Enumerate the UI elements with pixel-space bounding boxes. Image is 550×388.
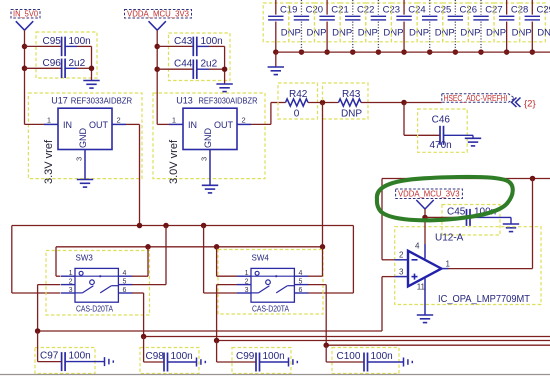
svg-text:3: 3: [245, 287, 249, 294]
capacitor C22 (DNP): [340, 0, 378, 55]
svg-text:100n: 100n: [69, 351, 91, 362]
svg-text:DNP: DNP: [486, 28, 506, 39]
svg-text:3: 3: [399, 268, 404, 277]
wire: [89, 46, 95, 80]
svg-text:DNP: DNP: [460, 28, 480, 39]
ground: [289, 358, 298, 367]
svg-text:U13: U13: [176, 95, 193, 105]
svg-text:DNP: DNP: [512, 28, 532, 39]
capacitor C46: [418, 109, 473, 152]
svg-text:470n: 470n: [430, 140, 452, 151]
node junction: [214, 244, 220, 250]
wire: [361, 102, 404, 104]
svg-text:1: 1: [446, 259, 451, 268]
resistor R43: [323, 83, 369, 120]
svg-text:1: 1: [245, 270, 249, 277]
svg-text:U17: U17: [51, 95, 68, 105]
wire: [204, 226, 237, 294]
svg-text:C100: C100: [337, 351, 361, 362]
wire: [12, 226, 61, 294]
wire: [424, 295, 426, 315]
wire: [322, 103, 324, 247]
op-amp U12-A: [395, 227, 542, 305]
wire: [326, 344, 550, 346]
node junction: [154, 66, 160, 72]
svg-text:6: 6: [123, 287, 127, 294]
capacitor C28 (DNP): [494, 0, 532, 55]
node junction: [422, 215, 428, 221]
ground: [465, 135, 481, 146]
svg-text:100n: 100n: [371, 351, 393, 362]
svg-text:DNP: DNP: [383, 28, 403, 39]
node junction: [320, 100, 326, 106]
wire: [404, 102, 442, 104]
svg-text:GND: GND: [203, 128, 213, 149]
resistor R42: [278, 83, 318, 120]
ground: [77, 180, 93, 188]
capacitor C99: [217, 341, 291, 374]
ground: [216, 84, 232, 92]
wire: [308, 102, 339, 104]
capacitor C26 (DNP): [443, 0, 481, 55]
svg-text:DNP: DNP: [341, 109, 362, 120]
wire: [404, 103, 440, 136]
svg-text:DNP: DNP: [332, 28, 352, 39]
wire: [144, 336, 550, 338]
wire: [126, 124, 140, 225]
svg-text:3: 3: [200, 157, 209, 161]
svg-text:{2}: {2}: [524, 99, 536, 110]
svg-text:4: 4: [123, 270, 127, 277]
svg-text:GND: GND: [78, 128, 88, 149]
annotation green ellipse: [377, 177, 513, 220]
wire: [56, 247, 61, 276]
wire: [251, 103, 286, 125]
svg-text:100n: 100n: [69, 36, 91, 47]
svg-text:C98: C98: [146, 351, 165, 362]
node junction: [530, 176, 536, 182]
svg-text:IN_5V0: IN_5V0: [13, 8, 38, 18]
node junction: [137, 223, 143, 229]
wire: [132, 293, 144, 337]
svg-text:6: 6: [299, 287, 303, 294]
ground: [404, 358, 413, 367]
switch SW3: [46, 251, 150, 316]
wire: [84, 164, 86, 180]
svg-text:100n: 100n: [263, 351, 285, 362]
capacitor C96: [25, 58, 92, 78]
ground: [503, 217, 519, 231]
capacitor C27 (DNP): [468, 0, 506, 55]
capacitor C45: [425, 205, 511, 236]
node junction: [22, 44, 28, 50]
wire: [209, 164, 211, 186]
svg-text:U12-A: U12-A: [435, 233, 464, 244]
wire: [382, 276, 395, 278]
voltage reference U13: [153, 93, 265, 184]
svg-text:C44: C44: [174, 59, 193, 70]
ground: [268, 52, 284, 75]
svg-text:2: 2: [242, 115, 246, 124]
svg-text:1: 1: [69, 270, 73, 277]
svg-text:2: 2: [399, 251, 404, 260]
ground: [417, 315, 433, 323]
capacitor C44: [157, 59, 224, 79]
svg-text:5: 5: [299, 278, 303, 285]
svg-text:DNP: DNP: [281, 28, 301, 39]
svg-text:IN: IN: [63, 120, 72, 130]
svg-text:100n: 100n: [171, 351, 193, 362]
wire: [38, 330, 382, 332]
wire: [0, 374, 550, 376]
svg-text:CAS-D20TA: CAS-D20TA: [252, 304, 290, 313]
node junction: [35, 328, 41, 334]
svg-text:DNP: DNP: [435, 28, 455, 39]
wire: [217, 247, 237, 276]
wire: [24, 30, 26, 124]
svg-text:CAS-D20TA: CAS-D20TA: [76, 304, 114, 313]
wire: [308, 285, 326, 346]
capacitor C25 (DNP): [417, 0, 455, 55]
svg-text:3.3V vref: 3.3V vref: [43, 139, 55, 184]
svg-text:C97: C97: [40, 351, 59, 362]
switch SW4: [218, 250, 323, 315]
svg-text:DNP: DNP: [358, 28, 378, 39]
svg-text:1: 1: [172, 115, 176, 124]
node junction: [145, 244, 151, 250]
chevron: [512, 98, 521, 108]
wire: [56, 246, 323, 248]
wire: [308, 226, 353, 294]
svg-text:5: 5: [123, 278, 127, 285]
svg-text:C95: C95: [43, 36, 62, 47]
wire: [156, 30, 158, 124]
svg-text:IN: IN: [188, 120, 197, 130]
svg-text:2: 2: [117, 115, 121, 124]
power port VDDA_MCU_3V3: [125, 8, 192, 30]
wire: [12, 225, 354, 227]
svg-text:R43: R43: [342, 89, 361, 100]
svg-text:C99: C99: [236, 351, 255, 362]
capacitor C95: [25, 32, 98, 78]
svg-text:DNP: DNP: [306, 28, 326, 39]
svg-text:R42: R42: [289, 89, 308, 100]
svg-text:SW4: SW4: [252, 254, 270, 263]
label sheet ref {2}: [524, 99, 536, 110]
capacitor C20 (DNP): [289, 0, 327, 55]
wire: [132, 247, 148, 276]
svg-text:2: 2: [245, 278, 249, 285]
svg-text:11: 11: [417, 283, 426, 292]
wire: [157, 123, 169, 125]
svg-text:2: 2: [69, 278, 73, 285]
voltage reference U17: [28, 93, 142, 184]
node junction: [141, 334, 147, 340]
capacitor C23 (DNP): [366, 0, 404, 55]
svg-text:C46: C46: [432, 115, 451, 126]
node junction: [320, 244, 326, 250]
ground: [197, 358, 206, 367]
wire: [217, 285, 237, 341]
wire: [424, 218, 426, 245]
ground: [202, 185, 218, 193]
capacitor C43: [157, 33, 230, 81]
wire: [217, 340, 550, 342]
wire: [25, 123, 45, 125]
wire: [222, 46, 228, 84]
capacitor C98: [140, 337, 199, 374]
svg-text:100n: 100n: [201, 36, 223, 47]
node junction: [214, 338, 220, 344]
svg-text:OUT: OUT: [214, 120, 234, 130]
node junction: [22, 66, 28, 72]
wire: [381, 277, 383, 331]
wire: [382, 178, 550, 180]
capacitor C19 (DNP): [263, 0, 301, 55]
node junction: [163, 223, 169, 229]
wire: [308, 247, 323, 276]
svg-text:REF3030AIDBZR: REF3030AIDBZR: [199, 95, 258, 105]
svg-text:DNP: DNP: [537, 28, 550, 39]
svg-text:SW3: SW3: [76, 254, 94, 263]
svg-text:3.0V vref: 3.0V vref: [168, 139, 180, 184]
svg-text:C43: C43: [174, 36, 193, 47]
svg-text:HSEC_ADC-VREFHI: HSEC_ADC-VREFHI: [444, 94, 508, 103]
node junction: [154, 44, 160, 50]
svg-text:VDDA_MCU_3V3: VDDA_MCU_3V3: [127, 8, 189, 18]
svg-text:2u2: 2u2: [69, 58, 86, 69]
svg-text:0: 0: [294, 109, 300, 120]
node junction: [401, 100, 407, 106]
wire: [449, 179, 533, 269]
svg-text:4: 4: [415, 241, 420, 250]
svg-text:REF3033AIDBZR: REF3033AIDBZR: [71, 95, 133, 105]
svg-text:3: 3: [75, 157, 84, 161]
ground: [105, 357, 114, 366]
capacitor C24 (DNP): [391, 0, 429, 55]
node junction: [323, 342, 329, 348]
ground: [83, 81, 99, 89]
svg-text:DNP: DNP: [409, 28, 429, 39]
capacitor C29 (DNP): [520, 0, 550, 55]
capacitor C21 (DNP): [315, 0, 353, 55]
svg-text:C96: C96: [43, 58, 62, 69]
node junction: [201, 223, 207, 229]
port HSEC_ADC-VREFHI: [442, 94, 515, 103]
wire: [276, 51, 550, 53]
svg-text:1: 1: [47, 115, 51, 124]
svg-text:IC_OPA_LMP7709MT: IC_OPA_LMP7709MT: [438, 293, 531, 305]
wire: [382, 179, 395, 260]
wire: [132, 226, 166, 285]
svg-text:4: 4: [299, 270, 303, 277]
power port IN_5V0: [11, 8, 40, 30]
wire: [38, 285, 61, 331]
svg-text:3: 3: [69, 287, 73, 294]
capacitor C100: [326, 345, 403, 373]
capacitor C97: [35, 331, 105, 374]
svg-text:OUT: OUT: [89, 120, 109, 130]
svg-text:2u2: 2u2: [201, 59, 218, 70]
svg-text:VDDA_MCU_3V3: VDDA_MCU_3V3: [398, 190, 460, 199]
power port VDDA_MCU_3V3: [396, 189, 463, 218]
svg-text:C29: C29: [537, 5, 550, 16]
